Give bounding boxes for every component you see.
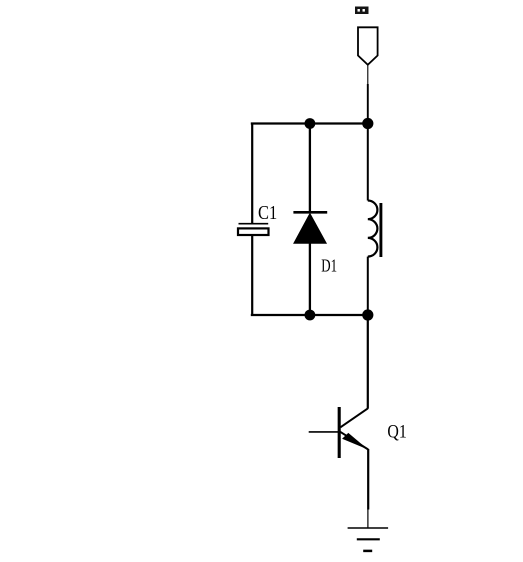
junction bottom right (362, 309, 373, 320)
wire middle branch lower (309, 243, 311, 315)
wire top rail (251, 122, 368, 124)
junction bottom middle (305, 310, 316, 321)
junction top right (362, 118, 373, 129)
wire left branch lower (251, 235, 253, 315)
wire collector (367, 315, 369, 409)
wire emitter (367, 449, 370, 528)
junction top middle (305, 118, 316, 129)
inductor L1 relay coil (368, 201, 381, 258)
svg-text:C1: C1 (258, 202, 277, 224)
wire connector to top node (367, 65, 369, 123)
wire right branch upper (367, 124, 369, 201)
ground (348, 528, 389, 551)
wire left branch upper (251, 124, 253, 224)
capacitor C1 (238, 224, 269, 235)
svg-text:Q1: Q1 (387, 421, 406, 442)
power connector P1 (358, 27, 378, 65)
wire bottom rail (251, 314, 368, 316)
net label VCC (355, 7, 369, 15)
diode D1 (293, 212, 327, 243)
transistor Q1 (309, 407, 369, 458)
svg-text:D1: D1 (321, 255, 337, 275)
wire right branch lower (367, 257, 369, 315)
wire middle branch upper (309, 124, 311, 212)
